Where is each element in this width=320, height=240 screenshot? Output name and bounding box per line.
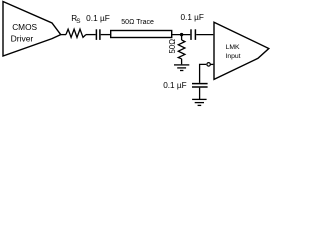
svg-text:CMOS: CMOS — [12, 22, 37, 32]
svg-text:Input: Input — [225, 53, 240, 60]
svg-text:50Ω Trace: 50Ω Trace — [121, 19, 154, 26]
svg-text:0.1 µF: 0.1 µF — [181, 13, 204, 22]
svg-text:50Ω: 50Ω — [168, 39, 177, 54]
svg-text:0.1 µF: 0.1 µF — [86, 13, 110, 23]
svg-text:Driver: Driver — [11, 33, 34, 43]
svg-text:S: S — [76, 18, 80, 25]
svg-text:LMK: LMK — [226, 44, 240, 51]
svg-text:0.1 µF: 0.1 µF — [163, 81, 186, 90]
